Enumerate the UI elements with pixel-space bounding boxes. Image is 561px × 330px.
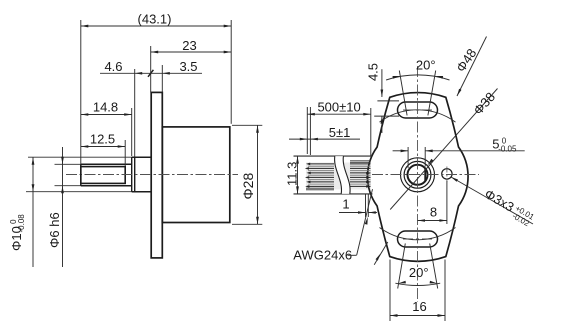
svg-text:14.8: 14.8	[93, 99, 118, 114]
svg-text:Φ6 h6: Φ6 h6	[47, 212, 62, 248]
svg-text:500±10: 500±10	[317, 99, 360, 114]
svg-text:4.6: 4.6	[104, 59, 122, 74]
svg-text:8: 8	[430, 205, 437, 220]
svg-text:20°: 20°	[416, 57, 436, 72]
svg-text:Φ28: Φ28	[240, 173, 256, 200]
svg-text:AWG24x6: AWG24x6	[293, 248, 352, 263]
svg-text:16: 16	[412, 299, 426, 314]
svg-text:12.5: 12.5	[90, 131, 115, 146]
svg-text:11.3: 11.3	[285, 162, 300, 186]
svg-text:23: 23	[182, 38, 196, 53]
svg-text:5±1: 5±1	[329, 125, 351, 140]
svg-text:4.5: 4.5	[365, 63, 380, 81]
svg-text:3.5: 3.5	[179, 59, 197, 74]
svg-text:20°: 20°	[409, 265, 429, 280]
svg-text:1: 1	[342, 197, 349, 212]
svg-text:(43.1): (43.1)	[138, 12, 172, 27]
